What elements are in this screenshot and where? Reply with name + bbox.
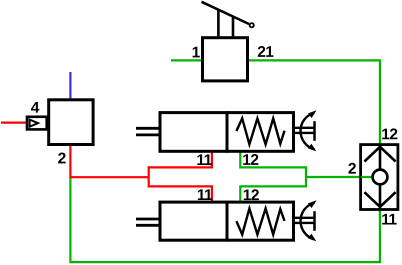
- shuttle valve SV1: ball: [373, 170, 388, 185]
- svg-text:4: 4: [31, 100, 40, 117]
- valve V4: return spring: [236, 209, 284, 235]
- wire: green from port 21 to top-right corner down to shuttle port 12: [248, 60, 380, 145]
- shuttle valve SV1: internal vertical line bottom: [379, 185, 382, 209]
- valve V3: right actuator stem: [294, 127, 314, 129]
- valve V3: actuator bar: [313, 121, 316, 141]
- valve V4: lower middle valve body: [160, 202, 294, 240]
- valve V2: left valve body: [49, 100, 93, 145]
- shuttle valve SV1: internal vertical line top: [379, 145, 382, 170]
- wire: green fork from upper valve port 12 to lower valve port 12: [240, 152, 306, 202]
- wire: red stub into pilot port 4 of left valve: [1, 121, 28, 123]
- svg-text:2: 2: [58, 150, 66, 167]
- svg-text:11: 11: [196, 152, 212, 169]
- wire: red fork to port 11 of both middle valves: [149, 152, 212, 202]
- wire: green branch to shuttle valve port 2: [306, 176, 372, 178]
- svg-text:21: 21: [257, 44, 274, 61]
- shuttle valve SV1: body: [361, 145, 398, 210]
- valve V4: arrowhead down-right: [308, 234, 317, 242]
- wire: red from left valve port 2 down then right: [70, 146, 148, 177]
- wire: green stub at port 1 of roller valve: [171, 59, 204, 61]
- shuttle valve SV1: lower seat chevron: [364, 192, 395, 207]
- valve V1: roller lever arm: [202, 2, 250, 24]
- svg-text:11: 11: [197, 187, 213, 204]
- valve V3: plunger double lines on left: [136, 127, 160, 130]
- valve V2: pilot box on left: [27, 117, 47, 130]
- valve V3: adjustment arc: [301, 113, 315, 150]
- svg-text:12: 12: [243, 187, 259, 204]
- svg-text:12: 12: [242, 152, 258, 169]
- valve V4: actuator bar: [313, 211, 316, 231]
- valve V1: lever support struts: [217, 10, 220, 37]
- valve V4: arrowhead up-right: [308, 200, 317, 208]
- svg-text:1: 1: [192, 44, 201, 61]
- svg-text:11: 11: [381, 212, 397, 229]
- valve V3: upper middle valve body: [160, 113, 294, 152]
- valve V4: adjustment arc: [301, 203, 315, 240]
- valve V3: return spring: [236, 118, 284, 144]
- wire: green continuation of port 2 inside shuttle valve to ball: [361, 176, 374, 178]
- wire: blue stub on top of left valve: [69, 72, 71, 100]
- valve V3: divider: [226, 111, 229, 153]
- svg-text:12: 12: [381, 126, 397, 143]
- valve V4: plunger double lines on left: [136, 218, 160, 221]
- valve V1: roller: [250, 23, 254, 27]
- valve V4: divider: [226, 201, 229, 242]
- valve V2: pilot triangle: [30, 120, 38, 127]
- valve V1: roller lever valve body: [203, 38, 248, 81]
- valve V3: arrowhead down-right: [308, 144, 317, 152]
- valve V4: right actuator stem: [294, 217, 314, 219]
- wire: green from shuttle valve port 11 down, along bottom, up to left valve port 2 junction: [70, 177, 380, 262]
- svg-text:2: 2: [348, 161, 356, 178]
- shuttle valve SV1: upper seat chevron: [364, 147, 395, 162]
- valve V3: arrowhead up-right: [308, 110, 317, 118]
